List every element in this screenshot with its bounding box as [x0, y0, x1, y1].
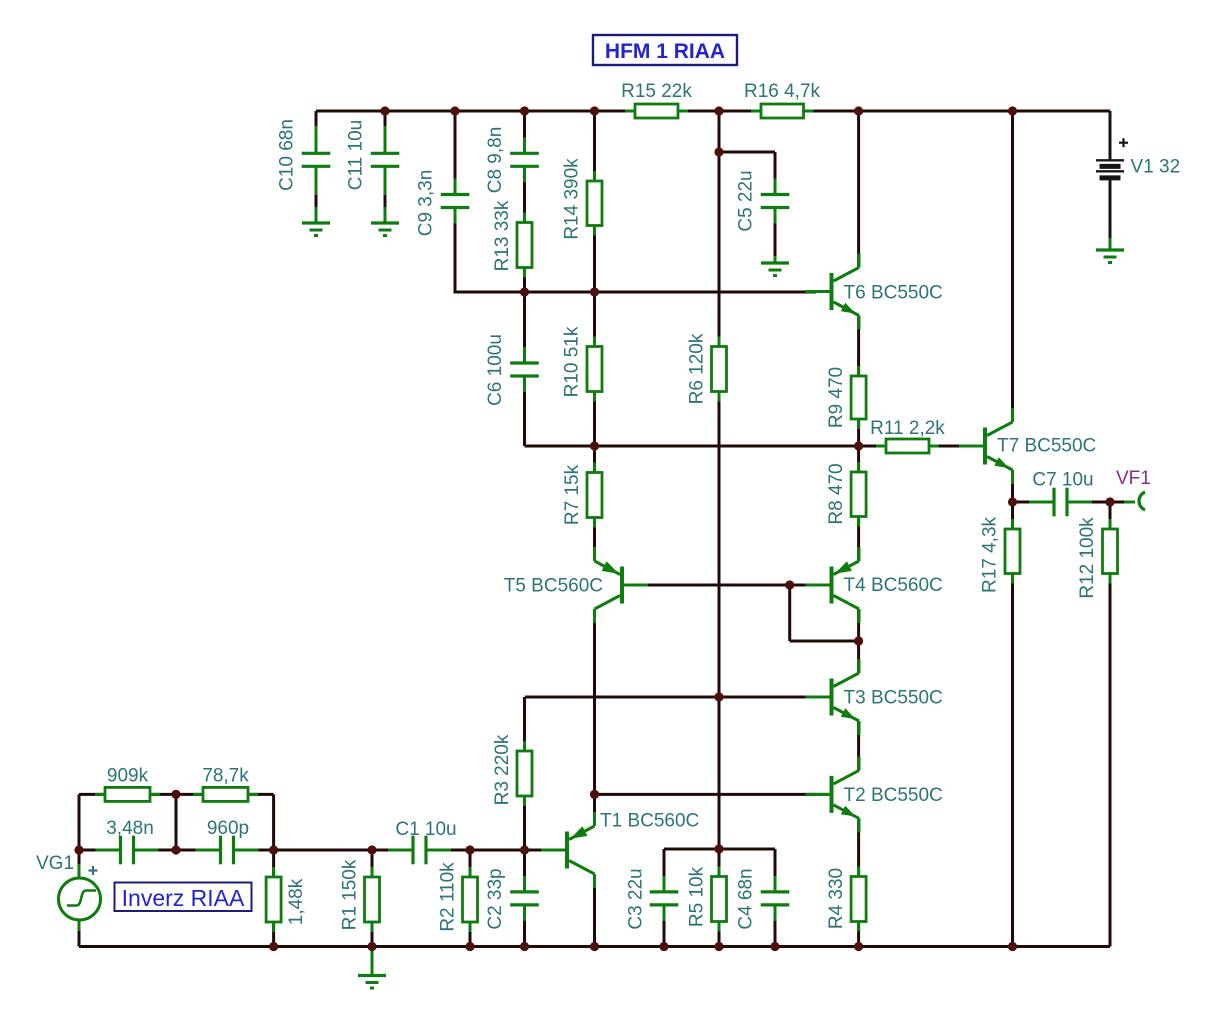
svg-text:R7 15k: R7 15k — [562, 464, 583, 525]
svg-text:T6 BC550C: T6 BC550C — [844, 283, 943, 304]
capacitor 3,48n — [96, 836, 159, 865]
capacitor C6 — [510, 347, 539, 392]
annotation box Inverz RIAA — [115, 883, 252, 912]
battery V1 — [1096, 160, 1124, 178]
svg-text:960p: 960p — [207, 818, 249, 839]
transistor T3 BC550C npn — [806, 659, 860, 735]
terminal VF1 output — [1139, 492, 1145, 510]
wire C10 column — [315, 111, 318, 126]
wire T3 emitter to T2 collector — [857, 721, 860, 771]
ground below battery V1 — [1096, 243, 1124, 263]
wire second rail (C9 to T6 base) — [455, 291, 816, 294]
wire input rail to C1 — [274, 849, 403, 852]
wire T3 base rail — [525, 696, 816, 699]
title box HFM 1 RIAA — [593, 35, 737, 65]
wire C2 column — [523, 850, 526, 891]
resistor R3 — [517, 741, 532, 806]
junction node T4 base link — [785, 580, 794, 589]
junction node rail3 / R9-R8-R11 — [854, 441, 863, 450]
ground below C10 — [302, 216, 330, 236]
wire R7 column — [593, 446, 596, 473]
svg-text:T5 BC560C: T5 BC560C — [504, 576, 603, 597]
svg-text:VF1: VF1 — [1116, 468, 1151, 489]
junction node top rail / T7 collector — [1008, 106, 1017, 115]
wire T2 base lead — [816, 793, 830, 796]
svg-text:R6 120k: R6 120k — [687, 333, 708, 404]
plus sign of battery V1 — [1119, 138, 1128, 147]
junction node bottom rail / C4 — [770, 942, 779, 951]
junction node bottom rail / C3 — [659, 942, 668, 951]
wire positive supply top rail — [316, 110, 1110, 113]
wire 1,48k column — [272, 850, 275, 877]
junction node T4-T3 collectors — [854, 636, 863, 645]
transistor T2 BC550C npn — [806, 756, 860, 832]
capacitor C9 — [441, 179, 470, 224]
wire C11 column — [384, 111, 387, 126]
junction node top rail / C11 — [380, 106, 389, 115]
ground below C5 — [761, 256, 789, 276]
svg-text:R4 330: R4 330 — [826, 868, 847, 929]
capacitor C7 — [1029, 488, 1092, 517]
svg-text:R15 22k: R15 22k — [621, 81, 692, 102]
capacitor C11 — [371, 137, 400, 182]
svg-text:T7 BC550C: T7 BC550C — [997, 436, 1096, 457]
wire R5 column — [718, 849, 721, 877]
ground below C11 — [371, 216, 399, 236]
svg-text:C5 22u: C5 22u — [736, 170, 757, 231]
wire right end of RIAA network — [272, 794, 275, 850]
capacitor C3 — [650, 876, 679, 921]
resistor R5 — [712, 867, 727, 932]
svg-text:R12 100k: R12 100k — [1077, 517, 1098, 599]
wire C3-R5-C4 top rail — [664, 848, 775, 851]
junction node 3,48n-960p — [171, 845, 180, 854]
wire R9 to rail — [857, 419, 860, 446]
svg-text:T3 BC550C: T3 BC550C — [844, 688, 943, 709]
svg-text:Inverz RIAA: Inverz RIAA — [122, 885, 245, 911]
wire input cap rail — [79, 849, 110, 852]
svg-text:C10 68n: C10 68n — [277, 119, 298, 191]
svg-text:C9 3,3n: C9 3,3n — [416, 170, 437, 237]
svg-text:VG1: VG1 — [36, 853, 74, 874]
wire T3 collector stub — [857, 641, 860, 673]
transistor T5 BC560C pnp — [595, 547, 649, 623]
transistor T4 BC560C pnp — [806, 547, 860, 623]
resistor R16 — [751, 104, 814, 118]
junction node top rail / R14 — [590, 106, 599, 115]
resistor 909k — [95, 787, 160, 801]
resistor R12 — [1103, 519, 1118, 584]
junction node VF1 / R12 — [1105, 497, 1114, 506]
resistor 1,48k — [266, 867, 281, 932]
capacitor 960p — [196, 836, 259, 865]
svg-text:C7 10u: C7 10u — [1032, 470, 1093, 491]
wire R6 column lower — [718, 392, 721, 850]
wire input RIAA network top rail — [79, 793, 105, 796]
svg-text:1,48k: 1,48k — [286, 878, 307, 925]
svg-text:C1 10u: C1 10u — [395, 819, 456, 840]
junction node rail2 / R13-C6 — [520, 287, 529, 296]
resistor R15 — [625, 104, 688, 118]
resistor R14 — [587, 171, 602, 236]
svg-text:C2 33p: C2 33p — [485, 868, 506, 929]
wire R17 column — [1011, 502, 1014, 529]
svg-text:HFM 1 RIAA: HFM 1 RIAA — [605, 40, 725, 63]
junction node C5 tap — [714, 147, 723, 156]
junction node top rail / C9 — [450, 106, 459, 115]
capacitor C1 — [388, 836, 451, 865]
svg-text:R9 470: R9 470 — [826, 367, 847, 428]
resistor R13 — [517, 213, 532, 278]
resistor R2 — [463, 867, 478, 932]
resistor R11 — [876, 439, 939, 453]
junction node rail2 / R14-R10 — [590, 287, 599, 296]
svg-text:R17 4,3k: R17 4,3k — [980, 516, 1001, 593]
junction node top rail / T6 collector — [854, 106, 863, 115]
wire T7 collector column — [1011, 111, 1014, 422]
junction node bottom rail / R1 ground — [367, 942, 376, 951]
junction node R1 top — [367, 845, 376, 854]
capacitor C2 — [510, 876, 539, 921]
wire T1 base lead — [546, 849, 565, 852]
transistor T7 BC550C npn — [959, 408, 1013, 484]
junction node 960p / 1,48k — [269, 845, 278, 854]
wire R1 column — [371, 850, 374, 877]
capacitor C10 — [302, 137, 331, 182]
plus sign of VG1 — [89, 866, 98, 875]
transistor T1 BC560C pnp — [541, 812, 595, 888]
wire R11 to T7 base — [929, 445, 972, 448]
wire C5 branch horizontal — [719, 151, 775, 154]
transistor T6 BC550C npn — [806, 254, 860, 330]
wire R10 column — [593, 292, 596, 347]
svg-text:R5 10k: R5 10k — [687, 866, 708, 927]
wire R14 column — [593, 111, 596, 181]
wire C9 column — [454, 111, 457, 194]
wire T5 collector column down to T1 — [593, 609, 596, 795]
wire C7 to VF1 node — [1069, 501, 1110, 504]
resistor R1 — [365, 867, 380, 932]
svg-text:R3 220k: R3 220k — [492, 734, 513, 805]
wire T1 collector to bottom rail — [593, 874, 596, 947]
svg-text:3,48n: 3,48n — [106, 818, 154, 839]
wire T5 base to T4 base — [640, 584, 814, 587]
source VG1 sine generator — [59, 878, 101, 920]
junction node T1 base / R3 / C2 — [520, 845, 529, 854]
wire C3 column — [663, 849, 666, 891]
junction node bottom rail / R2 — [465, 942, 474, 951]
svg-text:R14 390k: R14 390k — [562, 158, 583, 240]
resistor R10 — [587, 337, 602, 402]
wire C6 column — [523, 292, 526, 362]
resistor R9 — [851, 366, 866, 429]
svg-text:R16 4,7k: R16 4,7k — [744, 81, 821, 102]
resistor R6 — [712, 337, 727, 402]
svg-text:R10 51k: R10 51k — [562, 326, 583, 397]
junction node rail3 / R10-R7 — [590, 441, 599, 450]
wire input node rail (C1 to T1 base) — [428, 849, 546, 852]
svg-text:R11 2,2k: R11 2,2k — [870, 418, 945, 439]
wire R6 column upper — [718, 111, 721, 347]
junction node T7 emitter / R17 / C7 — [1008, 497, 1017, 506]
wire battery branch V1 bottom to ground — [1109, 179, 1112, 238]
wire R8 column — [857, 446, 860, 472]
junction node bottom rail / R17 — [1008, 942, 1017, 951]
svg-text:C3 22u: C3 22u — [626, 868, 647, 929]
svg-text:C8 9,8n: C8 9,8n — [485, 127, 506, 194]
resistor R7 — [587, 463, 602, 528]
resistor R8 — [851, 462, 866, 527]
junction node R5 top / R6 — [714, 844, 723, 853]
wire R2 column — [469, 850, 472, 877]
junction node T5 collector / T1 emitter / T2 base — [590, 790, 599, 799]
junction node bottom rail / T1 collector — [590, 942, 599, 951]
capacitor C8 — [510, 137, 539, 182]
svg-text:C11 10u: C11 10u — [346, 120, 367, 190]
junction node top rail / C8 — [520, 106, 529, 115]
wire R1 ground stub — [371, 947, 374, 976]
wire T7 emitter to output node — [1011, 470, 1014, 502]
capacitor C4 — [761, 876, 790, 921]
wire third rail (C6 to R11) — [525, 445, 887, 448]
ground below R1 — [358, 969, 386, 989]
wire VG1 top column — [78, 794, 81, 864]
wire T6 collector column — [857, 111, 860, 268]
wire T4 collector stub — [857, 609, 860, 641]
wire R12 column — [1109, 502, 1112, 529]
svg-text:R8 470: R8 470 — [826, 463, 847, 524]
junction node top rail / R6 — [714, 106, 723, 115]
wire R3 column — [523, 697, 526, 751]
wire T2 base rail — [595, 793, 817, 796]
resistor 78,7k — [193, 787, 258, 801]
wire 909k-78,7k mid tee — [175, 794, 178, 850]
svg-text:T1 BC560C: T1 BC560C — [600, 811, 699, 832]
wire C8 to R13 column — [523, 111, 526, 152]
svg-text:909k: 909k — [107, 766, 149, 787]
resistor R4 — [851, 867, 866, 932]
svg-text:R1 150k: R1 150k — [340, 859, 361, 930]
wire T6 emitter to R9 — [857, 316, 860, 377]
resistor R17 — [1005, 519, 1020, 584]
svg-text:R13 33k: R13 33k — [492, 200, 513, 271]
wire output node to C7 — [1013, 501, 1053, 504]
wire battery branch V1 top — [1109, 111, 1112, 160]
wire R4 to bottom rail — [857, 922, 860, 947]
junction node R2 top / C1 — [465, 845, 474, 854]
svg-text:C6 100u: C6 100u — [485, 334, 506, 406]
junction node VG1 / 3,48n — [74, 845, 83, 854]
junction node 909k-78,7k — [171, 790, 180, 799]
wire VG1 bottom column — [78, 920, 81, 933]
wire C5 column to ground — [774, 152, 777, 194]
svg-text:C4 68n: C4 68n — [736, 868, 757, 929]
wire bottom ground rail — [79, 945, 1110, 948]
svg-text:T2 BC550C: T2 BC550C — [844, 785, 943, 806]
junction node bottom rail / R4 — [854, 942, 863, 951]
wire VF1 lead — [1110, 501, 1124, 504]
wire T2 emitter to R4 — [857, 818, 860, 876]
svg-text:78,7k: 78,7k — [202, 766, 249, 787]
svg-text:R2 110k: R2 110k — [438, 862, 459, 932]
wire T3 base lead — [816, 696, 830, 699]
wire C4 column — [774, 849, 777, 891]
svg-text:V1 32: V1 32 — [1131, 157, 1181, 178]
wire T1 emitter link — [593, 794, 596, 826]
junction node T3 base / R6 — [714, 692, 723, 701]
svg-text:T4 BC560C: T4 BC560C — [844, 575, 943, 596]
wire T4 base node to T4 collector node (L link) — [788, 585, 791, 641]
wire T6 base lead — [816, 290, 830, 293]
capacitor C5 — [761, 179, 790, 224]
junction node bottom rail / 1,48k — [269, 942, 278, 951]
junction node bottom rail / C2 — [520, 942, 529, 951]
junction node bottom rail / R5 — [714, 942, 723, 951]
